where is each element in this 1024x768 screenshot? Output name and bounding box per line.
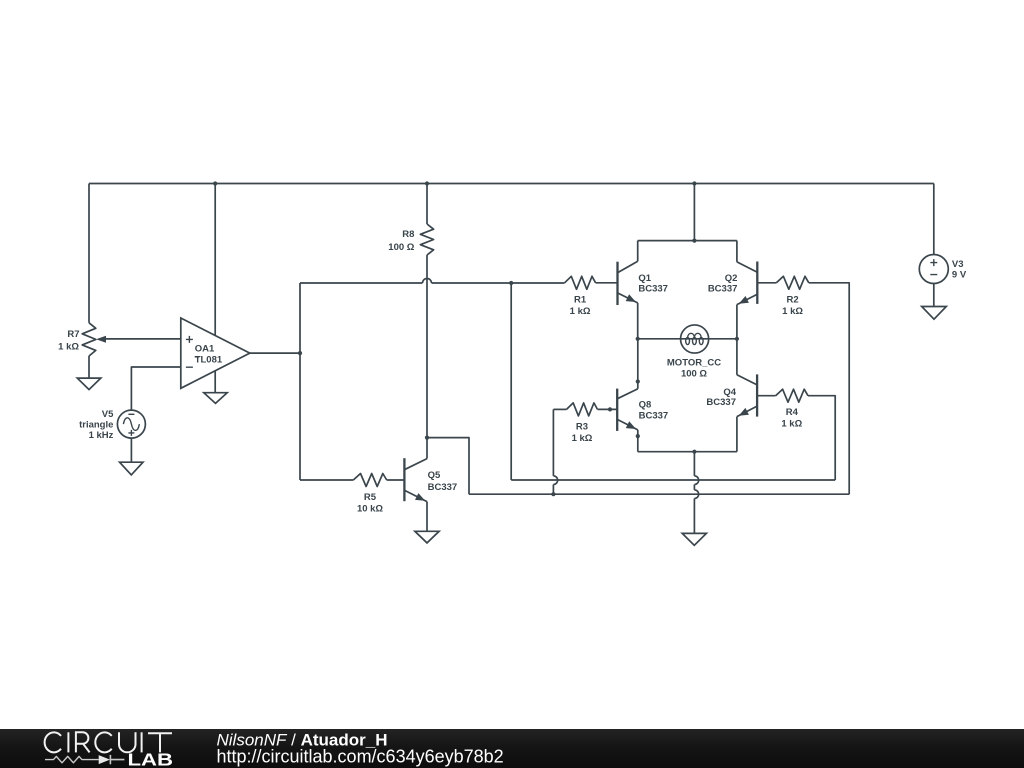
svg-text:OA1: OA1 <box>195 344 215 355</box>
node H-bridge top rail <box>692 239 696 243</box>
node motor left <box>636 337 640 341</box>
wire R7 top lead <box>88 184 90 323</box>
voltage source V3 9V <box>919 255 967 284</box>
wire output to R1 (left of hop) <box>300 282 423 284</box>
wire V3 top lead <box>933 184 935 255</box>
svg-text:BC337: BC337 <box>428 482 458 493</box>
ground under V3 <box>922 307 947 320</box>
voltage source V5 triangle 1kHz <box>79 409 145 441</box>
transistor Q2 BC337 <box>708 262 757 305</box>
node op-amp output <box>298 351 302 355</box>
svg-text:BC337: BC337 <box>639 411 669 422</box>
wire H-bridge top to supply <box>693 184 695 241</box>
wire R3 left lead <box>553 408 566 410</box>
wire R7 bottom lead <box>88 356 90 378</box>
wire op-amp V+ supply <box>214 184 216 337</box>
wire top supply rail <box>89 183 934 185</box>
wire R8 top lead <box>426 184 428 225</box>
wire op-amp V- to ground <box>214 370 216 393</box>
node w2 / R3 <box>551 492 555 496</box>
wire R8 bottom to Q5 collector node <box>426 255 428 438</box>
svg-text:1 kΩ: 1 kΩ <box>58 342 79 353</box>
svg-text:Q8: Q8 <box>639 399 652 410</box>
svg-text:MOTOR_CC: MOTOR_CC <box>667 357 721 368</box>
svg-text:BC337: BC337 <box>706 397 736 408</box>
wire ground stem lower <box>693 499 695 534</box>
footer title NilsonNF / Atuador_H <box>217 730 388 749</box>
resistor R3 1k <box>567 403 598 444</box>
svg-text:Q1: Q1 <box>638 273 651 284</box>
ground under R7 <box>77 378 101 390</box>
svg-text:R2: R2 <box>787 294 799 305</box>
svg-text:9 V: 9 V <box>952 269 967 280</box>
node Q8 collector <box>636 379 640 383</box>
node top rail / H-bridge <box>692 181 696 185</box>
svg-text:BC337: BC337 <box>638 284 668 295</box>
wire R4 right to w1 <box>808 396 835 480</box>
node motor right <box>735 337 739 341</box>
logo CIRCUIT wordmark <box>45 732 172 752</box>
wire output to R1 (right of hop) <box>432 282 565 284</box>
wire hop R3 riser over w1 <box>553 476 557 485</box>
svg-text:R5: R5 <box>364 492 377 503</box>
svg-text:R1: R1 <box>574 294 587 305</box>
wire Q1 emitter to motor-left <box>637 303 639 339</box>
wire H-bridge top rail <box>638 240 737 242</box>
wire V3 bottom lead <box>933 284 935 307</box>
wire Q2 base to R2 <box>757 282 776 284</box>
wire w1 to R4 <box>511 479 835 481</box>
node output / cross-coupling <box>509 281 513 285</box>
wire V5 to op-amp - input <box>131 367 180 410</box>
wire Q1 collector up <box>637 241 639 262</box>
wire V5 bottom lead <box>130 438 132 462</box>
node Q8 base <box>608 407 612 411</box>
ground under Q5 <box>415 531 439 543</box>
resistor R2 1k <box>776 276 808 317</box>
svg-text:Q5: Q5 <box>428 470 441 481</box>
svg-text:triangle: triangle <box>79 420 113 431</box>
logo LAB wordmark <box>128 749 174 768</box>
wire R3 riser from w2 <box>552 409 554 476</box>
svg-text:R3: R3 <box>576 421 588 432</box>
wire R3 to Q8 base <box>598 408 618 410</box>
transistor Q8 BC337 <box>617 389 668 431</box>
svg-text:100 Ω: 100 Ω <box>388 242 414 253</box>
svg-text:1 kΩ: 1 kΩ <box>782 306 803 317</box>
wire R7 wiper to op-amp + input <box>104 338 181 340</box>
wire hop stem over w1 <box>694 476 698 485</box>
resistor R5 10k <box>353 474 386 515</box>
node top rail / op-amp V+ <box>213 181 217 185</box>
wire stem between hops <box>693 485 695 490</box>
transistor Q5 BC337 <box>404 458 457 501</box>
transistor Q1 BC337 <box>618 261 668 305</box>
svg-text:V5: V5 <box>102 409 114 420</box>
wire R2 right to w2 <box>809 283 849 494</box>
svg-text:R8: R8 <box>402 229 414 240</box>
transistor Q4 BC337 <box>706 374 757 416</box>
wire Q5 base from output <box>300 479 353 481</box>
wire Q2 collector up <box>736 241 738 262</box>
op-amp OA1 TL081 <box>181 318 250 388</box>
wire Q4 base to R4 <box>757 395 776 397</box>
wire w2 (lower cross wire) <box>469 493 849 495</box>
svg-text:100 Ω: 100 Ω <box>681 369 707 380</box>
wire Q5 collector node to w2 <box>427 438 469 495</box>
wire Q8 collector to motor-left <box>637 339 639 389</box>
wire cross-coupling down (w1 riser) <box>510 283 512 480</box>
svg-text:Q2: Q2 <box>725 273 738 284</box>
wire hop over R8 wire <box>423 279 432 284</box>
svg-text:1 kΩ: 1 kΩ <box>570 306 591 317</box>
wire R3 riser lower <box>552 485 554 495</box>
resistor R1 1k <box>565 276 596 317</box>
wire hop stem over w2 <box>694 490 698 499</box>
svg-text:V3: V3 <box>952 259 964 270</box>
wire motor horizontal <box>638 338 737 340</box>
svg-text:R7: R7 <box>67 329 79 340</box>
svg-text:BC337: BC337 <box>708 283 738 294</box>
ground under V5 <box>120 462 143 475</box>
svg-text:1 kΩ: 1 kΩ <box>572 433 593 444</box>
svg-text:1 kHz: 1 kHz <box>89 430 114 441</box>
footer url <box>217 746 504 766</box>
wire op-amp output <box>250 352 300 354</box>
node H-bridge bottom rail <box>692 450 696 454</box>
node top rail / R8 <box>425 181 429 185</box>
potentiometer R7 <box>58 323 106 356</box>
node Q5 collector / R8 <box>425 436 429 440</box>
ground under H-bridge <box>682 533 706 545</box>
wire Q5 emitter down <box>426 502 428 532</box>
node Q8 emitter <box>636 434 640 438</box>
resistor R4 1k <box>776 389 808 430</box>
wire Q4 emitter down <box>736 417 738 452</box>
resistor R8 100 ohm <box>388 224 433 255</box>
FOOTER <box>0 729 1024 768</box>
wire ground stem upper <box>693 452 695 476</box>
wire Q2 emitter to Q4 collector <box>736 305 738 375</box>
wire H-bridge bottom rail <box>638 451 737 453</box>
motor MOTOR_CC 100 ohm <box>667 325 721 380</box>
ground under op-amp <box>204 393 227 404</box>
svg-text:LAB: LAB <box>128 749 174 768</box>
wire R5 to Q5 base <box>387 479 405 481</box>
wire op-amp output vertical <box>299 283 301 480</box>
wire Q8 emitter down <box>637 430 639 452</box>
svg-text:TL081: TL081 <box>195 355 223 366</box>
svg-text:http://circuitlab.com/c634y6ey: http://circuitlab.com/c634y6eyb78b2 <box>217 746 504 766</box>
svg-text:R4: R4 <box>786 407 799 418</box>
svg-text:10 kΩ: 10 kΩ <box>357 504 383 515</box>
wire Q5 collector up <box>426 438 428 459</box>
svg-text:1 kΩ: 1 kΩ <box>781 419 802 430</box>
wire R1 lead to Q1 base <box>596 282 618 284</box>
logo resistor-diode squiggle <box>45 755 124 764</box>
